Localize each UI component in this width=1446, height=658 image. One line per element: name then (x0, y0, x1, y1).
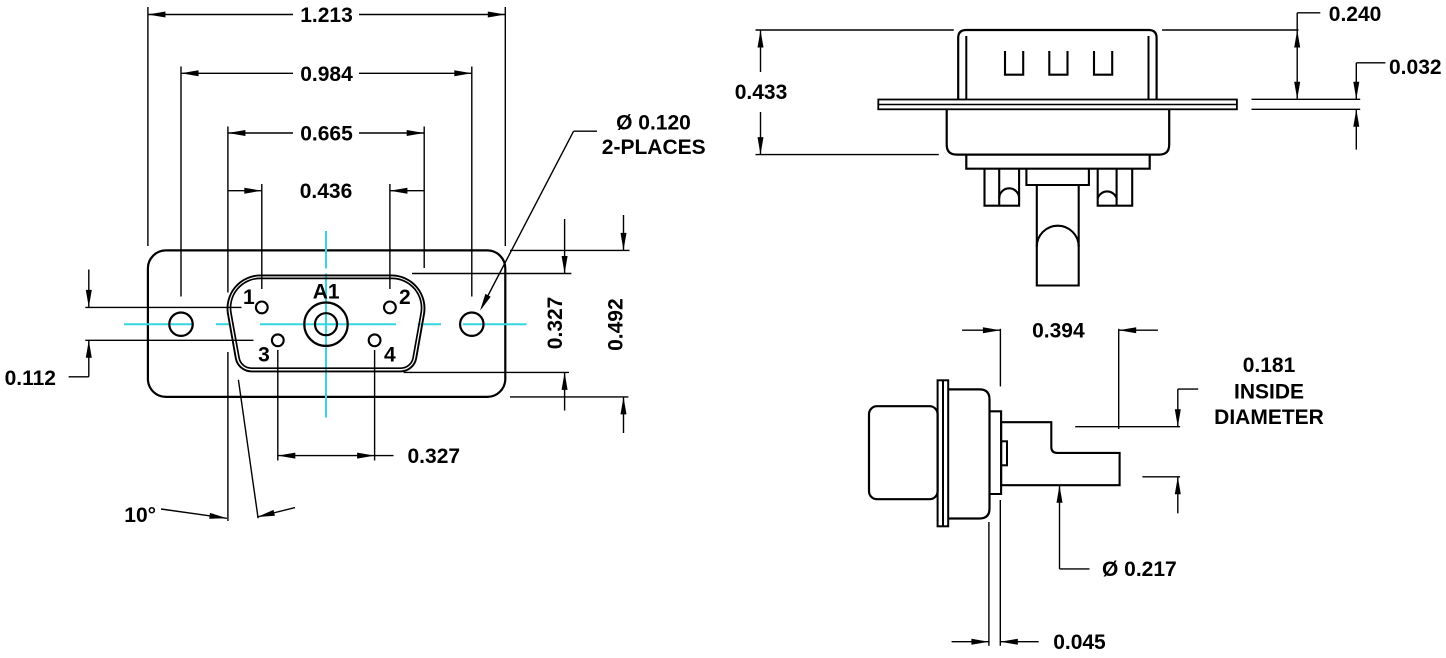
label pin 3 (258, 343, 270, 366)
dimension 1.213 (flange width) (148, 4, 505, 246)
svg-text:0.032: 0.032 (1389, 56, 1442, 79)
svg-text:1.213: 1.213 (300, 4, 353, 27)
dimension 0.394 (contact length) (962, 320, 1158, 429)
dimension 0.327 bottom (pin 3-4 spacing) (278, 350, 460, 468)
coax crimp barrel (rear) (1037, 185, 1079, 286)
svg-text:10°: 10° (124, 504, 156, 527)
contact rear body (side view) (869, 406, 938, 499)
rear body block (947, 109, 1169, 154)
pin slot 2 (top-right view) (1049, 51, 1067, 75)
svg-text:3: 3 (258, 343, 270, 366)
svg-text:0.433: 0.433 (735, 81, 788, 104)
pin 1 hole (256, 302, 268, 314)
dimension 0.665 (insert width) (228, 123, 424, 522)
svg-text:0.665: 0.665 (300, 123, 353, 146)
dimension 0.984 (mounting hole spacing) (181, 63, 472, 297)
svg-text:0.181: 0.181 (1243, 354, 1296, 377)
horizontal centerline (cyan) (124, 323, 527, 325)
svg-text:Ø 0.217: Ø 0.217 (1102, 558, 1177, 581)
svg-text:0.984: 0.984 (300, 63, 353, 86)
step ring (side view) (990, 411, 1002, 494)
pin 2 hole (384, 302, 396, 314)
svg-text:0.492: 0.492 (604, 298, 627, 351)
dimension 0.327 vertical (insert height) (404, 219, 572, 411)
svg-text:2: 2 (399, 286, 411, 309)
svg-text:0.112: 0.112 (5, 367, 56, 390)
svg-text:0.240: 0.240 (1329, 3, 1382, 26)
svg-text:0.045: 0.045 (1053, 631, 1106, 654)
dimension 0.112 (pin row offset) (5, 270, 254, 391)
dimension 0.492 vertical (flange height) (510, 215, 630, 433)
label pin 4 (384, 343, 396, 366)
connector flange outline (front view) (148, 250, 505, 397)
dimension 0.433 (body height) (735, 30, 954, 155)
label A1 (313, 281, 340, 304)
insulator cylinder (side view) (948, 389, 989, 518)
dimension 0.240 (shell height above flange) (1162, 3, 1381, 99)
dimension 0.045 (step width) (952, 500, 1106, 654)
svg-text:0.394: 0.394 (1032, 320, 1085, 343)
insulator block (966, 155, 1149, 169)
right mounting hole (460, 313, 483, 336)
left mounting hole (169, 313, 192, 336)
svg-text:A1: A1 (313, 281, 340, 304)
retention bump (side view) (1001, 441, 1007, 465)
vertical centerline (cyan) (325, 231, 327, 418)
svg-text:0.327: 0.327 (544, 297, 567, 350)
coax contact A1 (concentric circles) (304, 303, 347, 346)
coax contact shoulder (rear) (1026, 169, 1089, 185)
svg-text:2-PLACES: 2-PLACES (602, 136, 706, 159)
insert inner outline (231, 278, 422, 368)
label pin 1 (243, 286, 255, 309)
flange disc (side view) (938, 380, 949, 526)
svg-text:DIAMETER: DIAMETER (1214, 406, 1324, 429)
shell body (top-right view) (958, 30, 1156, 100)
dimension 0.436 (pin 1-2 spacing) (228, 180, 424, 289)
insert outer outline (trapezoid with 10 deg sides) (228, 275, 425, 371)
svg-text:4: 4 (384, 343, 396, 366)
coax contact profile (side view) (1001, 422, 1120, 485)
svg-text:0.436: 0.436 (300, 180, 353, 203)
left pin contact (rear) (985, 169, 1020, 206)
svg-text:0.327: 0.327 (408, 445, 461, 468)
leader dia 0.120 2-places (mounting holes) (480, 111, 706, 310)
pin 4 hole (369, 334, 381, 346)
right pin contact (rear) (1098, 169, 1133, 206)
dimension 0.032 (flange thickness) (1252, 56, 1442, 150)
pin slot 1 (top-right view) (1005, 51, 1023, 75)
label pin 2 (399, 286, 411, 309)
dimension 10 deg (insert draft angle) (124, 380, 295, 527)
leader dia 0.217 (contact outside diameter) (1057, 485, 1177, 581)
svg-text:Ø 0.120: Ø 0.120 (616, 111, 691, 134)
svg-text:INSIDE: INSIDE (1234, 380, 1304, 403)
dimension 0.181 inside diameter (1075, 354, 1324, 513)
pin slot 3 (top-right view) (1094, 51, 1112, 75)
mounting flange plate (edge-on) (878, 100, 1237, 110)
svg-text:1: 1 (243, 286, 255, 309)
pin 3 hole (272, 334, 284, 346)
